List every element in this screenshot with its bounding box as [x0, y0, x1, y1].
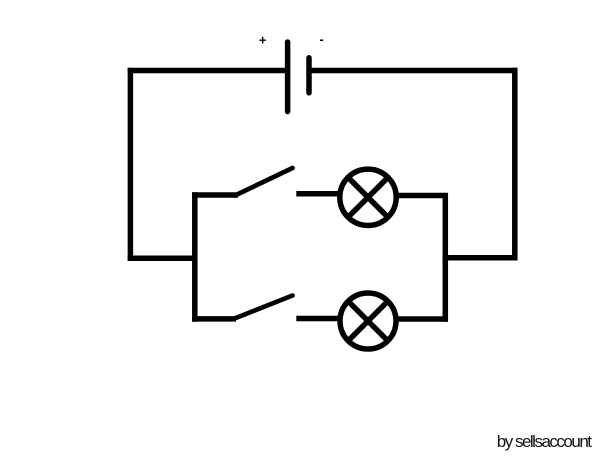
- wire inner-right vertical: [443, 194, 449, 322]
- wire top-left horizontal: [128, 68, 287, 74]
- wire bottom-right horizontal: [443, 255, 518, 261]
- wire top-right horizontal: [309, 68, 518, 74]
- switch S2 stub: [192, 316, 236, 322]
- wire outer-left vertical: [128, 68, 134, 261]
- switch S2 blade: [235, 296, 293, 319]
- wire lamp L1 to right vertical: [396, 193, 448, 199]
- svg-text:+: +: [259, 33, 267, 48]
- switch S1 blade: [235, 168, 293, 196]
- lamp L2 cross: [348, 301, 387, 340]
- svg-text:-: -: [319, 32, 323, 47]
- wire bottom-left horizontal: [128, 256, 198, 262]
- battery B1 plus plate: [285, 42, 291, 112]
- wire S2 to lamp L2: [296, 316, 340, 322]
- switch S1 stub: [192, 192, 238, 198]
- wire lamp L2 to right vertical: [396, 316, 448, 322]
- lamp L2 circle: [340, 293, 396, 349]
- wire outer-right vertical: [512, 68, 518, 261]
- battery B1 minus plate: [306, 58, 312, 93]
- wire inner-left vertical: [192, 192, 198, 321]
- wire S1 to lamp L1: [296, 191, 340, 197]
- svg-text:by sellsaccount: by sellsaccount: [497, 432, 593, 451]
- lamp L1 circle: [340, 169, 396, 225]
- lamp L1 cross: [348, 178, 388, 218]
